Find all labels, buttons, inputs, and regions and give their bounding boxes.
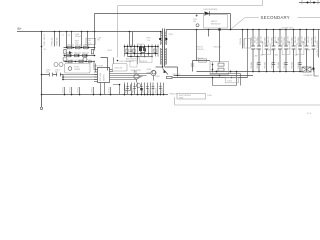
- wire opto to IC y77: [63, 76, 98, 78]
- transformer phase dots: [159, 38, 167, 40]
- wires from IC right side: [110, 74, 151, 80]
- svg-text:100u 25V: 100u 25V: [254, 35, 256, 43]
- capacitor lower plates: [257, 63, 301, 65]
- junction dot x119 y84: [119, 84, 121, 86]
- capacitor C917 box: [130, 61, 137, 67]
- cluster text smudges: [67, 44, 90, 62]
- optocoupler PC901 box: [65, 64, 91, 74]
- svg-text:100u 25V: 100u 25V: [281, 35, 283, 43]
- wire feedback mid y75.5: [174, 75, 254, 77]
- svg-text:C963 47u: C963 47u: [197, 49, 204, 51]
- wire feedback top: [193, 60, 211, 62]
- svg-text:2SC5: 2SC5: [108, 50, 113, 52]
- feedback area labels: [197, 47, 221, 52]
- svg-text:R93 12: R93 12: [156, 88, 158, 93]
- driver cluster text rows: [126, 59, 147, 63]
- svg-text:R95 10k: R95 10k: [298, 62, 300, 68]
- svg-text:R921 C915 R922: R921 C915 R922: [126, 59, 138, 61]
- svg-text:R90 1k2: R90 1k2: [83, 52, 89, 54]
- svg-text:R93 12: R93 12: [133, 88, 135, 93]
- text inside J901: [179, 94, 192, 99]
- svg-text:ON3131: ON3131: [74, 69, 80, 71]
- junction dots driver cluster: [124, 46, 159, 58]
- resistor R910 body: [68, 46, 73, 49]
- transistor Q904 circle: [151, 70, 156, 75]
- junction dots feedback wires: [177, 75, 233, 79]
- wire primary/secondary boundary top: [118, 5, 263, 7]
- svg-text:R95 10k: R95 10k: [265, 62, 267, 68]
- wire secondary output bus: [166, 29, 320, 31]
- IC901 right pins: [110, 70, 114, 72]
- svg-text:C95 100u: C95 100u: [278, 37, 280, 44]
- wire feedback low y77.5: [173, 77, 248, 79]
- svg-text:470u: 470u: [275, 55, 279, 57]
- wire x196 drop: [196, 30, 198, 61]
- capacitor C912 plates: [49, 73, 52, 77]
- resistor R902 vertical: [54, 32, 56, 47]
- svg-text:10u: 10u: [193, 21, 196, 23]
- svg-text:C95 100u: C95 100u: [284, 37, 286, 44]
- svg-text:R93 12: R93 12: [149, 88, 151, 93]
- svg-text:C95 100u: C95 100u: [298, 37, 300, 44]
- svg-text:C95 100u: C95 100u: [272, 37, 274, 44]
- transistor Q903 circle: [134, 74, 139, 79]
- wire cluster rail y55: [64, 55, 96, 57]
- capacitor C951 plus mark: [196, 14, 199, 16]
- IC901 box: [98, 68, 110, 83]
- svg-text:+B 135V OUT: +B 135V OUT: [281, 27, 294, 29]
- svg-text:SECONDARY: SECONDARY: [261, 15, 290, 20]
- resistors inside IC951: [218, 63, 224, 66]
- wire far right drop: [318, 30, 320, 58]
- diode D906 diagonal: [163, 69, 169, 75]
- diode D951 rectifier: [205, 11, 210, 15]
- svg-text:R901 150k: R901 150k: [44, 36, 46, 45]
- wire left rail x41: [41, 32, 43, 108]
- wire primary ground bus: [42, 94, 169, 96]
- transformer primary winding lower: [161, 48, 163, 65]
- wire SECONDARY leader diagonal: [231, 18, 246, 30]
- svg-text:1.5k: 1.5k: [147, 40, 150, 42]
- label inside heatsink: [211, 21, 221, 26]
- wire x132 drop: [132, 32, 134, 47]
- transformer secondary winding lower: [165, 48, 167, 65]
- connector CN951 box: [302, 67, 311, 72]
- svg-text:Q903 C2482: Q903 C2482: [131, 70, 141, 72]
- capacitor column labels upper: [251, 37, 314, 44]
- svg-text:471: 471: [55, 72, 58, 74]
- svg-text:TL431: TL431: [227, 80, 232, 82]
- svg-text:R95 10k: R95 10k: [292, 62, 294, 68]
- wire top-right ticks: [302, 0, 318, 5]
- svg-text:R95 10k: R95 10k: [284, 62, 286, 68]
- transistor Q901 circle: [63, 57, 67, 61]
- wire x113.5 into D905 box: [113, 58, 115, 64]
- transistor Q902 circle: [83, 57, 87, 61]
- svg-text:D1: D1: [68, 34, 70, 36]
- transistor Q902 dark blob: [139, 47, 146, 53]
- svg-text:R90 1k2: R90 1k2: [71, 60, 77, 62]
- svg-text:T901: T901: [169, 34, 173, 36]
- junction dots top-right: [307, 2, 316, 4]
- wire x129 drop: [129, 32, 131, 47]
- labels C912 C913: [46, 70, 60, 74]
- svg-text:C95 100u: C95 100u: [305, 37, 307, 44]
- svg-text:10: 10: [43, 34, 45, 36]
- capacitor C913 plates: [57, 73, 61, 77]
- svg-text:FUSE: FUSE: [179, 97, 183, 99]
- capacitor C909 body vertical: [64, 50, 66, 54]
- wire x137.5 drop to lower: [137, 57, 139, 65]
- wire feedback y73.5: [210, 74, 241, 86]
- capacitor column extra labels: [254, 35, 317, 43]
- wire SECONDARY leader left segment: [245, 17, 259, 19]
- wire top-right output stub: [299, 2, 320, 4]
- svg-text:R936 0.22: R936 0.22: [170, 93, 178, 95]
- junction dots lower feedback: [212, 71, 238, 79]
- wire driver rail y46.5: [125, 46, 159, 48]
- label box feedback: [226, 78, 239, 83]
- diode D902: [69, 51, 72, 55]
- resistor R952 column: [247, 30, 249, 49]
- labels R951 R952: [240, 38, 251, 48]
- wire IC left risers: [94, 61, 96, 73]
- wire cluster rail y47: [64, 47, 96, 49]
- wire boundary right edge: [262, 0, 264, 6]
- svg-text:2200pF: 2200pF: [75, 36, 82, 38]
- resistor R914 body: [75, 54, 80, 57]
- svg-text:C95 100u: C95 100u: [312, 37, 314, 44]
- wire driver rail y56.5: [128, 56, 153, 58]
- junction dots on ground bus: [64, 94, 165, 96]
- terminal circle C951: [196, 24, 199, 27]
- wire transformer secondary top stub: [165, 30, 167, 32]
- svg-text:C916 472: C916 472: [137, 44, 144, 46]
- svg-text:R93 12: R93 12: [162, 88, 164, 93]
- wire x219 drop: [219, 30, 221, 63]
- junction dot x129: [129, 31, 131, 33]
- resistor R951 column: [242, 30, 244, 49]
- svg-text:R902 56k: R902 56k: [52, 37, 54, 45]
- horizontal smudge texts right mid: [255, 49, 311, 58]
- svg-text:R90 1k2: R90 1k2: [84, 44, 90, 46]
- ground comb verticals right: [125, 83, 164, 95]
- wire Q904 stubs: [147, 73, 154, 81]
- label C951: [193, 19, 197, 23]
- svg-text:R95 10k: R95 10k: [257, 62, 259, 68]
- wire after rectifier: [210, 14, 231, 30]
- transistor circles left of cluster: [54, 63, 63, 67]
- ground comb verticals left: [65, 87, 111, 95]
- svg-text:F901 T2A 250V: F901 T2A 250V: [179, 94, 192, 97]
- resistor R961 body: [167, 76, 173, 78]
- label PC901: [74, 67, 80, 71]
- svg-text:R90 1k2: R90 1k2: [67, 52, 73, 54]
- capacitor C962 plates: [191, 64, 194, 66]
- wire connector stub: [311, 70, 319, 77]
- wire secondary rectifier feed: [95, 13, 205, 15]
- svg-text:C95 100u: C95 100u: [265, 37, 267, 44]
- resistor R909 box: [86, 38, 96, 44]
- terminal circle bottom left: [40, 107, 42, 109]
- svg-text:B+: B+: [18, 27, 22, 31]
- capacitor C905 vertical: [71, 32, 73, 48]
- junction dot x117 y60: [117, 60, 119, 62]
- wire boundary left edge: [117, 6, 119, 58]
- svg-text:R93 12: R93 12: [126, 88, 128, 93]
- junction dots on left rail: [41, 46, 43, 96]
- junction dots on return bus: [252, 71, 301, 73]
- svg-text:MUR1620CT: MUR1620CT: [211, 24, 221, 26]
- wire loop under IC: [125, 85, 131, 91]
- svg-text:100u 25V: 100u 25V: [295, 35, 297, 43]
- jumper box J901: [177, 94, 206, 100]
- regulator IC951 box: [210, 62, 229, 75]
- svg-text:100u 25V: 100u 25V: [308, 35, 310, 43]
- transformer secondary winding upper: [165, 32, 167, 46]
- svg-text:C98: C98: [308, 50, 311, 52]
- ferrite bead circle: [152, 71, 155, 74]
- resistor R911 body: [76, 46, 81, 49]
- electrolytic outline boxes: [263, 44, 304, 55]
- svg-text:R93 12: R93 12: [143, 88, 145, 93]
- value labels under B+ bus: [43, 34, 82, 46]
- resistor R918 box: [140, 57, 153, 63]
- resistor R913 body: [67, 54, 72, 57]
- svg-text:C96 470u: C96 470u: [268, 50, 275, 52]
- labels mid column: [137, 38, 151, 46]
- junction dots in IC951: [212, 63, 214, 73]
- svg-text:100u 25V: 100u 25V: [268, 35, 270, 43]
- svg-text:R95 10k: R95 10k: [272, 62, 274, 68]
- svg-text:C91 472: C91 472: [92, 87, 94, 93]
- components on rail y61.5: [65, 60, 91, 63]
- svg-text:1-3 E: 1-3 E: [307, 113, 312, 115]
- junction dots on B+ bus: [41, 31, 96, 33]
- comb labels: [63, 87, 164, 93]
- junction dot far right mid: [312, 67, 314, 69]
- wire x208 drop: [208, 30, 210, 37]
- svg-text:D905 133: D905 133: [115, 67, 122, 69]
- svg-text:C95 100u: C95 100u: [292, 37, 294, 44]
- resistor R912 body: [84, 46, 89, 49]
- wire branch y74.5: [42, 74, 64, 76]
- svg-text:C97: C97: [288, 49, 291, 51]
- svg-text:R90 1k2: R90 1k2: [68, 44, 74, 46]
- junction dots on secondary bus: [196, 28, 315, 30]
- transformer primary winding upper: [161, 32, 163, 46]
- capacitor column labels lower: [251, 62, 300, 68]
- capacitor C908 vertical: [81, 32, 83, 47]
- resistor R904 vertical: [66, 32, 68, 48]
- svg-text:DEGAUSS: DEGAUSS: [304, 74, 314, 77]
- svg-text:R951 1k: R951 1k: [240, 38, 242, 44]
- svg-text:R90 1k2: R90 1k2: [75, 52, 81, 54]
- capacitor C910 body vertical: [91, 50, 93, 54]
- wire secondary return bus: [197, 71, 303, 73]
- junction blob left of opto wires: [62, 75, 64, 81]
- junction dots cluster: [64, 47, 96, 57]
- svg-text:C96: C96: [255, 49, 258, 51]
- driver cluster small bodies: [126, 49, 156, 52]
- wire L-branch at x107: [101, 58, 108, 71]
- svg-text:C95 100u: C95 100u: [251, 37, 253, 44]
- svg-text:R925: R925: [156, 76, 160, 78]
- svg-text:Q904: Q904: [147, 69, 151, 71]
- diode box D905 above IC right: [113, 64, 128, 72]
- svg-text:R95 10k: R95 10k: [251, 62, 253, 68]
- wire driver rail y53.5: [125, 53, 159, 55]
- wire bottom return line: [175, 97, 320, 105]
- svg-text:222: 222: [46, 72, 49, 74]
- transformer T901 core: [163, 29, 165, 67]
- driver cluster verticals: [125, 45, 159, 57]
- capacitor between wires: [134, 70, 136, 73]
- wire IC bottom drops: [101, 83, 120, 95]
- resistor R915 body: [83, 54, 88, 57]
- wire feedback bottom y85.5: [213, 72, 237, 86]
- wire cluster rail y61.5: [64, 61, 96, 63]
- svg-text:R90 1k2: R90 1k2: [78, 60, 84, 62]
- wire transformer bottom left stub: [156, 66, 163, 68]
- resistor R909 vertical: [87, 32, 89, 47]
- wire opto to IC y74.5: [63, 74, 98, 76]
- wire B+ bus: [17, 31, 162, 33]
- wire x94.5 riser: [94, 14, 96, 51]
- svg-text:C91 472: C91 472: [109, 87, 111, 93]
- IC901 left pins: [94, 70, 98, 82]
- resistor R903 vertical: [59, 32, 61, 47]
- svg-text:L903: L903: [208, 95, 212, 97]
- labels near transistors: [131, 69, 151, 72]
- svg-text:C91 472: C91 472: [70, 87, 72, 93]
- svg-text:R95 10k: R95 10k: [278, 62, 280, 68]
- optocoupler LED circle: [68, 67, 72, 71]
- svg-text:C95 100u: C95 100u: [257, 37, 259, 44]
- junction dot bus to primary: [160, 31, 162, 33]
- svg-text:R903 56k: R903 56k: [57, 37, 59, 45]
- svg-text:R960 1k: R960 1k: [197, 58, 204, 60]
- svg-text:C91 472: C91 472: [78, 87, 80, 93]
- capacitor columns C952-C961: [251, 30, 315, 72]
- svg-text:C91 472: C91 472: [63, 87, 65, 93]
- svg-text:104: 104: [295, 55, 298, 57]
- resistor body on feedback top wire: [199, 59, 207, 62]
- heatsink box around rectifier: [204, 15, 228, 29]
- wire opto to IC y79.5: [63, 79, 98, 81]
- svg-text:STR F6654: STR F6654: [100, 73, 102, 81]
- svg-text:D951 MUR1620: D951 MUR1620: [204, 9, 218, 11]
- svg-text:C950 47u: C950 47u: [244, 39, 246, 46]
- svg-text:R961 470: R961 470: [173, 74, 181, 76]
- wire Q903 stubs: [137, 77, 143, 83]
- polarity plus marks on caps: [261, 41, 304, 43]
- svg-text:R90 1k2: R90 1k2: [76, 44, 82, 46]
- comb component bodies: [126, 84, 162, 91]
- svg-text:C1: C1: [62, 34, 64, 36]
- IC901 text inside: [100, 73, 106, 81]
- wire x247 couple: [247, 49, 249, 78]
- wire SECONDARY leader right segment: [298, 17, 320, 19]
- wire x192 drop: [192, 61, 194, 72]
- junction dot transformer bottom: [162, 66, 164, 68]
- wire transformer bottom right to x177: [165, 67, 178, 76]
